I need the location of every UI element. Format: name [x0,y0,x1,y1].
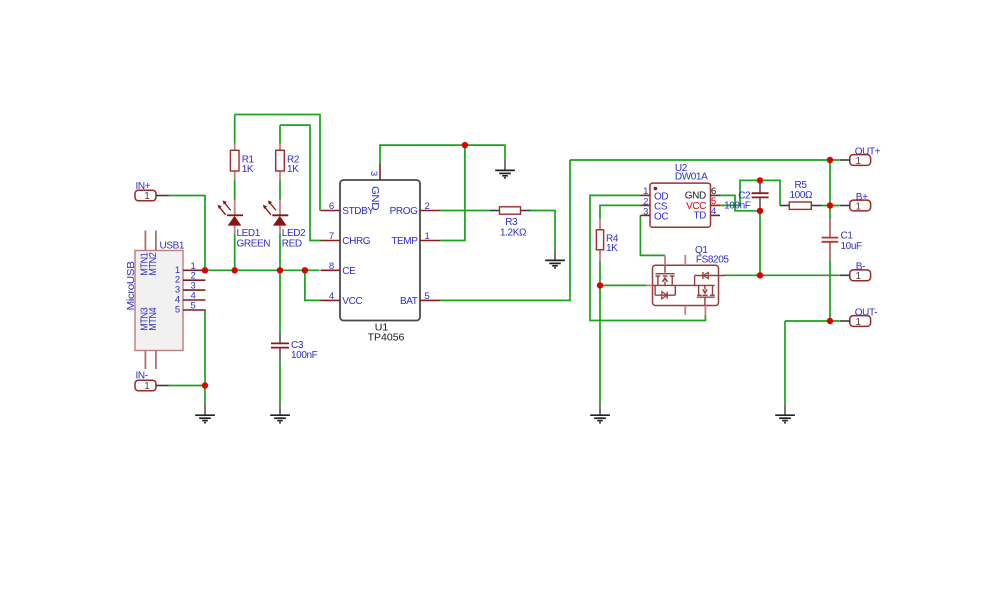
U1 body [340,180,420,321]
capacitor C2 [724,180,769,211]
U1 pin 7 CHRG [321,240,341,242]
resistor R2 [276,144,300,181]
svg-text:PROG: PROG [390,206,418,217]
junction VCC tap on CE net [302,267,308,273]
OUT+ body [850,155,871,166]
svg-text:MTN2: MTN2 [148,252,159,276]
junction LED1 cathode on CE net [232,267,238,273]
svg-text:OUT-: OUT- [855,307,877,318]
resistor R1 [230,144,254,181]
R2 pins [279,144,281,151]
C1 plates [822,237,839,239]
wire VCC jog [305,270,321,300]
USB1 pin MTN1 [144,231,146,251]
LED1 triangle [228,216,242,226]
IC U1 TP4056 [321,163,441,343]
IN- body [135,380,156,391]
wire U2 OC to Q1 [640,215,665,255]
B- body [850,270,871,281]
junction IN+ / USB pin1 / CE net [202,267,208,273]
R1 body [230,150,239,171]
LED1 emission arrows [219,207,225,215]
wire U2 OD to Q1 gate [590,195,705,320]
LED LED2 RED [263,200,306,249]
connector OUT+ [840,146,881,167]
USB1 pin MTN2 [155,231,157,251]
resistor R5 [780,180,822,210]
svg-text:B+: B+ [856,192,868,203]
U1 pin 1 TEMP [420,240,440,242]
wire main to C3 [279,270,281,331]
USB1 pin 5 GND [183,309,205,311]
wire R5 to B+ [822,205,839,207]
U2 pin1 marker dot [654,187,658,191]
U2 pin 2 CS [640,204,650,206]
wire U2 GND pin jog to C2 bottom [720,195,760,210]
svg-text:10uF: 10uF [841,241,862,252]
Q1 body diode B [695,275,719,277]
R4 body [596,230,603,250]
wire U2 VCC pin jog to C2 top [720,180,780,205]
C2 plates [752,192,769,194]
LED2 emission arrows [265,207,271,215]
USB1 pin 4 [183,299,205,301]
C3 plates [271,342,289,344]
IN+ body [135,190,156,201]
capacitor C3 [271,332,318,361]
C3 pins [279,332,281,344]
R2 body [276,150,285,171]
R4 pins [599,219,601,230]
svg-text:LED1: LED1 [237,228,261,239]
wire junction to ground [599,285,601,404]
svg-text:VCC: VCC [342,296,362,307]
svg-text:IN-: IN- [136,371,148,382]
connector B- [840,261,871,282]
Q1 MOSFET A symbol [664,265,666,273]
wire BAT to right rail [440,160,570,300]
svg-text:USB1: USB1 [160,241,185,252]
svg-text:1: 1 [856,317,862,328]
B+ body [850,200,871,211]
svg-text:1: 1 [856,201,862,212]
wire C1 to OUT- [829,259,831,321]
junction B+ rail [827,202,833,208]
svg-text:MTN4: MTN4 [148,307,159,331]
USB1 pin MTN4 [155,351,157,370]
LED1 cathode bar [227,214,243,216]
C1 pins [829,219,831,237]
LED2 triangle [273,216,287,226]
svg-text:6: 6 [329,201,334,212]
wire IN- to junction [169,385,206,387]
USB1 pin 3 [183,289,205,291]
Q1 body diode A [654,285,656,295]
wire TEMP to GND net [440,145,465,240]
LED1 pins [234,200,236,215]
junction LED2 cathode / C3 on CE net [277,267,283,273]
Q1 pins [664,255,666,265]
wire OUT- to ground [784,321,786,404]
wire top line1 to STDBY [235,115,320,211]
svg-text:1K: 1K [287,164,299,175]
connector USB1 MicroUSB [126,231,205,370]
LED2 pins [279,200,281,215]
svg-text:100nF: 100nF [724,200,751,211]
USB1 pin MTN3 [144,351,146,370]
svg-text:CHRG: CHRG [342,236,370,247]
R3 pins [490,210,500,212]
junction R4 / Q1 source / ground [597,282,603,288]
svg-text:CE: CE [342,266,356,277]
junction IN- / USB GND [202,382,208,388]
wire main CE net horizontal [205,269,320,271]
wire R2 to LED2 [279,180,281,200]
svg-text:3: 3 [368,171,379,176]
wire top rail OUT+ [570,159,839,161]
wire USB GND vertical to ground [204,310,206,404]
svg-text:BAT: BAT [400,296,418,307]
svg-text:100Ω: 100Ω [790,190,813,201]
U1 pin 2 PROG [420,210,440,212]
wire LED1 to main [234,234,236,271]
svg-text:STDBY: STDBY [342,206,374,217]
transistor Q1 FS8205 [646,245,729,316]
USB1 pin 1 VBUS [183,269,205,271]
wire C2 bottom to B- [759,211,761,275]
svg-text:1: 1 [144,191,150,202]
svg-text:1: 1 [856,271,862,282]
svg-text:DW01A: DW01A [675,171,708,182]
svg-text:1K: 1K [606,243,618,254]
U2 pin 1 OD [640,194,650,196]
wire R1 to LED1 [234,180,236,200]
svg-text:1: 1 [425,231,430,242]
wire R1 top [234,115,236,144]
svg-text:OUT+: OUT+ [855,146,881,157]
U1 pin 6 STDBY [321,210,341,212]
wire LED2 to main [279,234,281,271]
LED LED1 GREEN [218,200,271,249]
wire right rail OUT+ to C1 [829,160,831,219]
U2 body [650,183,711,227]
svg-text:LED2: LED2 [282,228,306,239]
wire U2 CS to R4 [600,205,640,219]
R1 pins [234,144,236,151]
svg-text:4: 4 [711,206,716,217]
U2 pin 3 OC [640,214,650,216]
connector OUT- [840,307,878,328]
svg-text:TEMP: TEMP [391,236,418,247]
U1 pin 8 CE [321,269,341,271]
svg-text:5: 5 [425,291,430,302]
R5 body [789,202,811,209]
svg-text:C1: C1 [841,231,854,242]
Q1 body [653,265,719,305]
svg-text:IN+: IN+ [136,181,151,192]
svg-text:5: 5 [175,305,180,316]
svg-text:MicroUSB: MicroUSB [126,261,137,311]
svg-text:1.2KΩ: 1.2KΩ [500,227,527,238]
svg-text:1: 1 [144,381,150,392]
svg-text:1K: 1K [242,164,254,175]
ground G1 input [195,404,215,422]
svg-text:FS8205: FS8205 [696,255,729,266]
svg-text:5: 5 [190,301,195,312]
resistor R3 [490,207,531,239]
svg-text:GND: GND [685,190,706,201]
svg-text:RED: RED [282,238,302,249]
connector IN+ [135,181,169,202]
wire OUT- line [785,320,839,322]
svg-text:GREEN: GREEN [237,238,271,249]
wire junction to Q1 source [600,284,646,286]
Q1 MOSFET B symbol [698,285,700,295]
ground G4 R3 [545,249,565,268]
wire R3 to ground [531,211,556,250]
USB1 body [135,251,183,351]
wire R2 top [279,125,281,144]
connector B+ [840,192,871,213]
U1 pin 4 VCC [321,299,341,301]
IC U2 DW01A [640,163,720,227]
svg-text:1: 1 [856,156,862,167]
svg-text:7: 7 [329,231,334,242]
capacitor C1 [822,219,862,259]
svg-text:TD: TD [693,211,706,222]
U1 pin 5 BAT [420,299,440,301]
svg-text:B-: B- [856,261,865,272]
C2 pins [759,180,761,193]
junction C2 bottom / GND net [757,208,763,214]
ground G5 R4 [590,404,610,422]
USB1 pin 2 [183,279,205,281]
U2 pin 4 TD [711,214,721,216]
LED2 cathode bar [272,214,288,216]
svg-text:TP4056: TP4056 [368,332,405,344]
ground G6 OUT- [775,404,795,422]
wire R4 bottom to junction [599,261,601,286]
OUT- body [850,316,871,327]
wire top line2 to CHRG [280,125,321,240]
svg-text:100nF: 100nF [291,350,318,361]
svg-text:OC: OC [654,211,668,222]
svg-text:R3: R3 [505,217,518,228]
junction OUT- / C1 [827,318,833,324]
R3 body [500,207,521,214]
junction TEMP on GND net [462,142,468,148]
wire C3 to ground [279,361,281,405]
U2 pin 6 GND [711,194,721,196]
wire U1 GND net [380,145,505,163]
connector IN- [135,371,169,393]
wire Q1 drain to B- [724,274,840,276]
ground G2 C3 [270,404,290,422]
ground G3 U1 GND [495,160,515,178]
U2 pin 5 VCC [711,204,721,206]
wire PROG to R3 [440,210,490,212]
R5 pins [780,205,789,207]
U1 pin 3 GND [379,163,381,180]
junction B- net at C2 branch [757,272,763,278]
svg-text:4: 4 [329,291,334,302]
wire IN+ to vertical [169,196,206,271]
svg-text:3: 3 [643,206,648,217]
junction OUT+ rail [827,157,833,163]
junction C2 top / VCC net [757,177,763,183]
svg-text:2: 2 [425,201,430,212]
svg-text:8: 8 [329,261,334,272]
resistor R4 [596,219,618,261]
